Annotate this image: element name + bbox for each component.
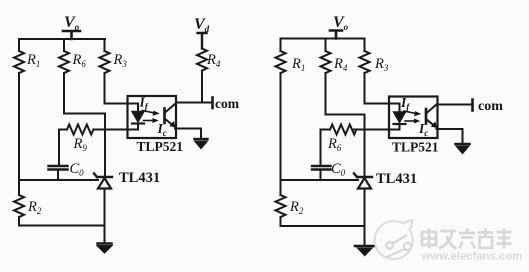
node Vo terminal (left): [63, 31, 80, 39]
wire R4 branch top (right): [325, 39, 327, 52]
diode LED (right opto): [394, 112, 406, 124]
svg-text:Vo: Vo: [333, 14, 349, 32]
wire collector to com terminal (right): [438, 104, 473, 106]
wire C0 bottom to ref line: [57, 170, 59, 181]
transistor Q1 phototransistor (left): [165, 104, 176, 129]
wire R1 branch top (right): [280, 39, 282, 52]
node Vd terminal: [198, 33, 207, 49]
wire R2 bottom: [18, 217, 20, 225]
wire emitter to ground (left): [176, 129, 201, 139]
wire top rail (left): [19, 38, 105, 40]
svg-text:R9: R9: [73, 136, 88, 153]
svg-text:Vo: Vo: [64, 14, 80, 32]
resistor R3: [100, 51, 110, 73]
capacitor C0 (right): [312, 166, 331, 170]
resistor R4 (right mid): [321, 51, 331, 73]
wire bottom line to TL431 anode (right): [281, 225, 365, 227]
wire ref node line (right): [281, 179, 359, 181]
optocoupler U1 TLP521 box (left): [128, 96, 177, 138]
wire emitter to ground (right): [438, 129, 463, 144]
node Vo terminal (right): [330, 31, 342, 39]
wire R3 bottom to LED anode (right): [365, 73, 400, 112]
optocoupler U2 TLP521 box (right): [389, 97, 438, 139]
wire C0 bottom to ref line (right): [320, 170, 322, 181]
svg-text:TL431: TL431: [119, 170, 160, 186]
wire ref node line: [19, 179, 98, 181]
capacitor C0: [49, 166, 68, 170]
node com terminal (right): [471, 100, 474, 111]
wire R2 top (right): [280, 180, 282, 195]
svg-text:TLP521: TLP521: [137, 139, 184, 154]
svg-text:Vd: Vd: [194, 16, 210, 34]
wire light arrow 1 (left): [143, 111, 160, 116]
transistor Q2 phototransistor (right): [426, 104, 437, 129]
wire light arrow 2 (left): [144, 118, 159, 123]
svg-text:R6: R6: [72, 52, 87, 69]
wire cathode chain vertical: [104, 114, 106, 177]
svg-text:R3: R3: [113, 52, 128, 69]
wire R3 branch top: [104, 39, 106, 51]
svg-text:R1: R1: [26, 52, 40, 69]
watermark logo elecfans: [375, 220, 413, 259]
resistor R9 (horizontal): [67, 125, 93, 135]
wire R1 bottom to ref node (right): [280, 73, 282, 180]
wire cathode node line with LED stem (right): [354, 125, 400, 130]
svg-text:R4: R4: [333, 56, 348, 73]
watermark chinese text: [422, 229, 512, 249]
ground opto (left): [195, 139, 208, 148]
wire R4 bottom corner to chain (right): [326, 73, 365, 115]
resistor R4 (left pullup): [197, 49, 207, 71]
svg-text:R6: R6: [327, 136, 342, 153]
svg-text:R2: R2: [289, 199, 304, 216]
svg-text:R4: R4: [206, 52, 221, 69]
wire collector to com node: [176, 102, 213, 104]
svg-text:com: com: [478, 99, 503, 114]
wire R1 branch top: [18, 39, 20, 51]
diode TL431 (right): [354, 174, 372, 189]
wire light arrow 1 (right): [404, 111, 421, 116]
wire bottom line to TL431 anode: [19, 225, 105, 227]
ground opto (right): [456, 144, 470, 153]
wire light arrow 2 (right): [405, 119, 420, 124]
wire R3 bottom to LED anode: [105, 73, 139, 112]
svg-text:TLP521: TLP521: [392, 140, 439, 155]
ground TL431 (right): [355, 246, 375, 255]
resistor R2 (right): [276, 195, 286, 217]
svg-text:C0: C0: [70, 161, 85, 178]
svg-text:www.elecfans.com: www.elecfans.com: [421, 251, 523, 263]
svg-text:TL431: TL431: [376, 171, 417, 187]
ground TL431 (left): [98, 244, 112, 253]
diode TL431 (left): [94, 174, 112, 189]
wire R4 bottom to com node: [201, 71, 203, 103]
wire TL431 anode down (right): [364, 189, 366, 246]
wire R1 bottom to ref node: [18, 73, 20, 180]
wire cathode node line with LED stem: [94, 124, 139, 130]
wire R6 left end to C0 branch (right): [321, 130, 331, 165]
resistor R6 (left mid): [59, 51, 69, 73]
svg-text:R3: R3: [374, 56, 389, 73]
svg-text:com: com: [215, 96, 240, 111]
svg-text:R1: R1: [291, 56, 305, 73]
wire R6 bottom corner to chain: [64, 73, 105, 114]
svg-text:C0: C0: [331, 161, 346, 178]
wire R6 branch top: [63, 39, 65, 51]
node com terminal (left): [211, 98, 214, 109]
wire TL431 anode down: [104, 189, 106, 244]
resistor R1: [14, 51, 24, 73]
resistor R3 (right): [360, 51, 370, 73]
svg-text:R2: R2: [27, 199, 42, 216]
wire cathode chain vertical (right): [364, 115, 366, 177]
resistor R1 (right): [276, 51, 286, 73]
wire R9 left end to C0 branch: [59, 130, 67, 165]
diode LED (left opto): [132, 112, 144, 124]
wire R2 top: [18, 180, 20, 195]
wire R3 branch top (right): [364, 39, 366, 52]
wire top rail (right): [281, 38, 365, 40]
resistor R2: [14, 195, 24, 217]
wire R2 bottom (right): [280, 217, 282, 226]
resistor R6 (right horizontal): [330, 125, 356, 135]
